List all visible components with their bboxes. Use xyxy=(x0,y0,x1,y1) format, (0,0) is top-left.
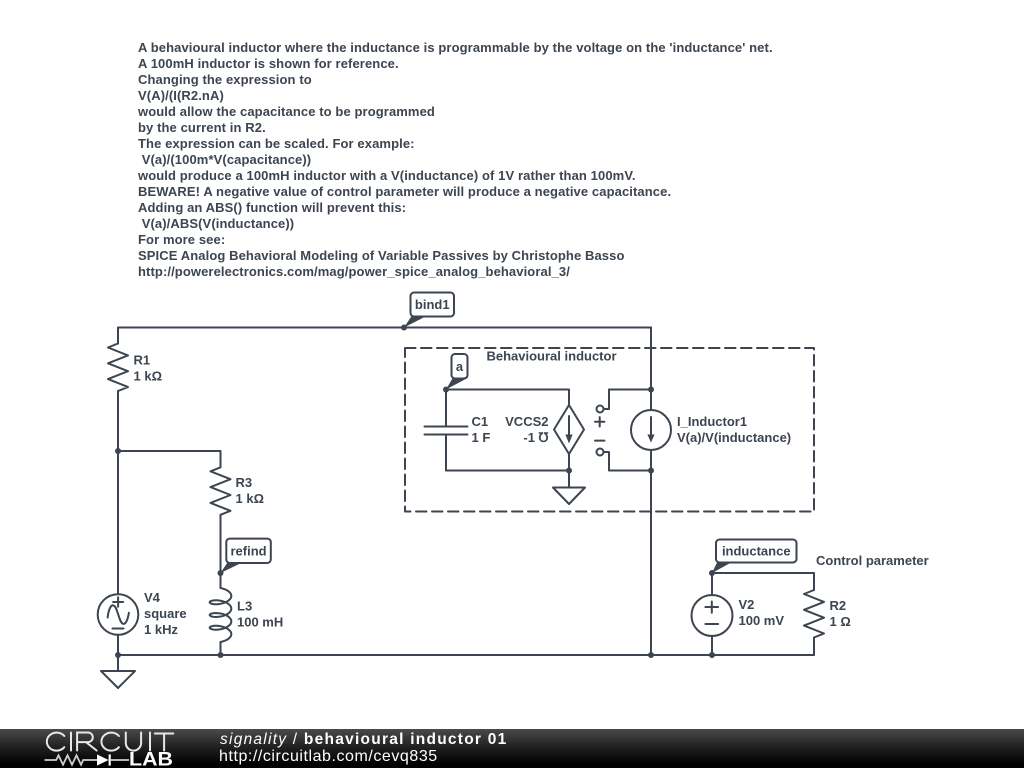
wire L3 to bottom rail xyxy=(220,642,222,655)
junction VCCS2 minus sense to main net xyxy=(648,468,654,474)
net label refind xyxy=(221,539,271,573)
VCCS2 sense terminals xyxy=(604,390,652,410)
junction main net to bottom rail xyxy=(648,652,654,658)
net label inductance xyxy=(712,540,797,574)
wire left branch above R1 xyxy=(117,328,119,344)
net label bind1 xyxy=(404,293,454,328)
junction node a xyxy=(443,387,449,393)
wire bottom rail xyxy=(118,654,814,656)
wire top net bind1 xyxy=(118,327,651,329)
net label a xyxy=(446,354,469,390)
junction R1-R3 branch node xyxy=(115,448,121,454)
junction VCCS2 bottom to ground xyxy=(566,468,572,474)
VCCS2 dependent source xyxy=(554,405,584,454)
current source I_Inductor1 xyxy=(631,410,671,450)
wire VCCS2 bottom lead xyxy=(568,454,570,471)
wire main vertical net xyxy=(650,328,652,656)
logo resistor and diode xyxy=(45,754,130,765)
inductor L3 xyxy=(210,588,232,642)
voltage source V2 xyxy=(692,595,733,636)
junction V2 to bottom rail xyxy=(709,652,715,658)
svg-text:LAB: LAB xyxy=(129,750,173,768)
resistor R1 xyxy=(108,344,128,392)
resistor R2 xyxy=(804,590,824,638)
junction L3 to bottom rail xyxy=(218,652,224,658)
wire R3 to refind node to L3 xyxy=(220,515,222,588)
wire node a to VCCS2 top xyxy=(446,390,569,406)
wire left branch below R1 to V4 and ground xyxy=(117,391,119,655)
junction V4 to bottom rail xyxy=(115,652,121,658)
footer title xyxy=(220,731,508,749)
behavioural inductor dashed box xyxy=(405,348,814,512)
ground inside box xyxy=(568,471,570,488)
junction VCCS2 plus sense to main net xyxy=(648,387,654,393)
CircuitLab logo xyxy=(47,733,173,751)
footer bar xyxy=(0,729,1024,768)
resistor R3 xyxy=(211,467,231,515)
junction node refind xyxy=(218,570,224,576)
footer url xyxy=(219,748,438,766)
capacitor C1 xyxy=(445,390,447,427)
wire C1 bottom to VCCS2 bottom xyxy=(446,470,569,472)
wire V2 branch xyxy=(711,573,713,655)
ground under V4 xyxy=(117,655,119,671)
wire node to R3 branch xyxy=(118,451,221,467)
junction node inductance xyxy=(709,570,715,576)
wire below R2 xyxy=(813,638,815,656)
voltage source V4 xyxy=(98,594,139,635)
wire inductance node to R2 xyxy=(712,573,814,590)
junction node bind1 on top net xyxy=(401,325,407,331)
